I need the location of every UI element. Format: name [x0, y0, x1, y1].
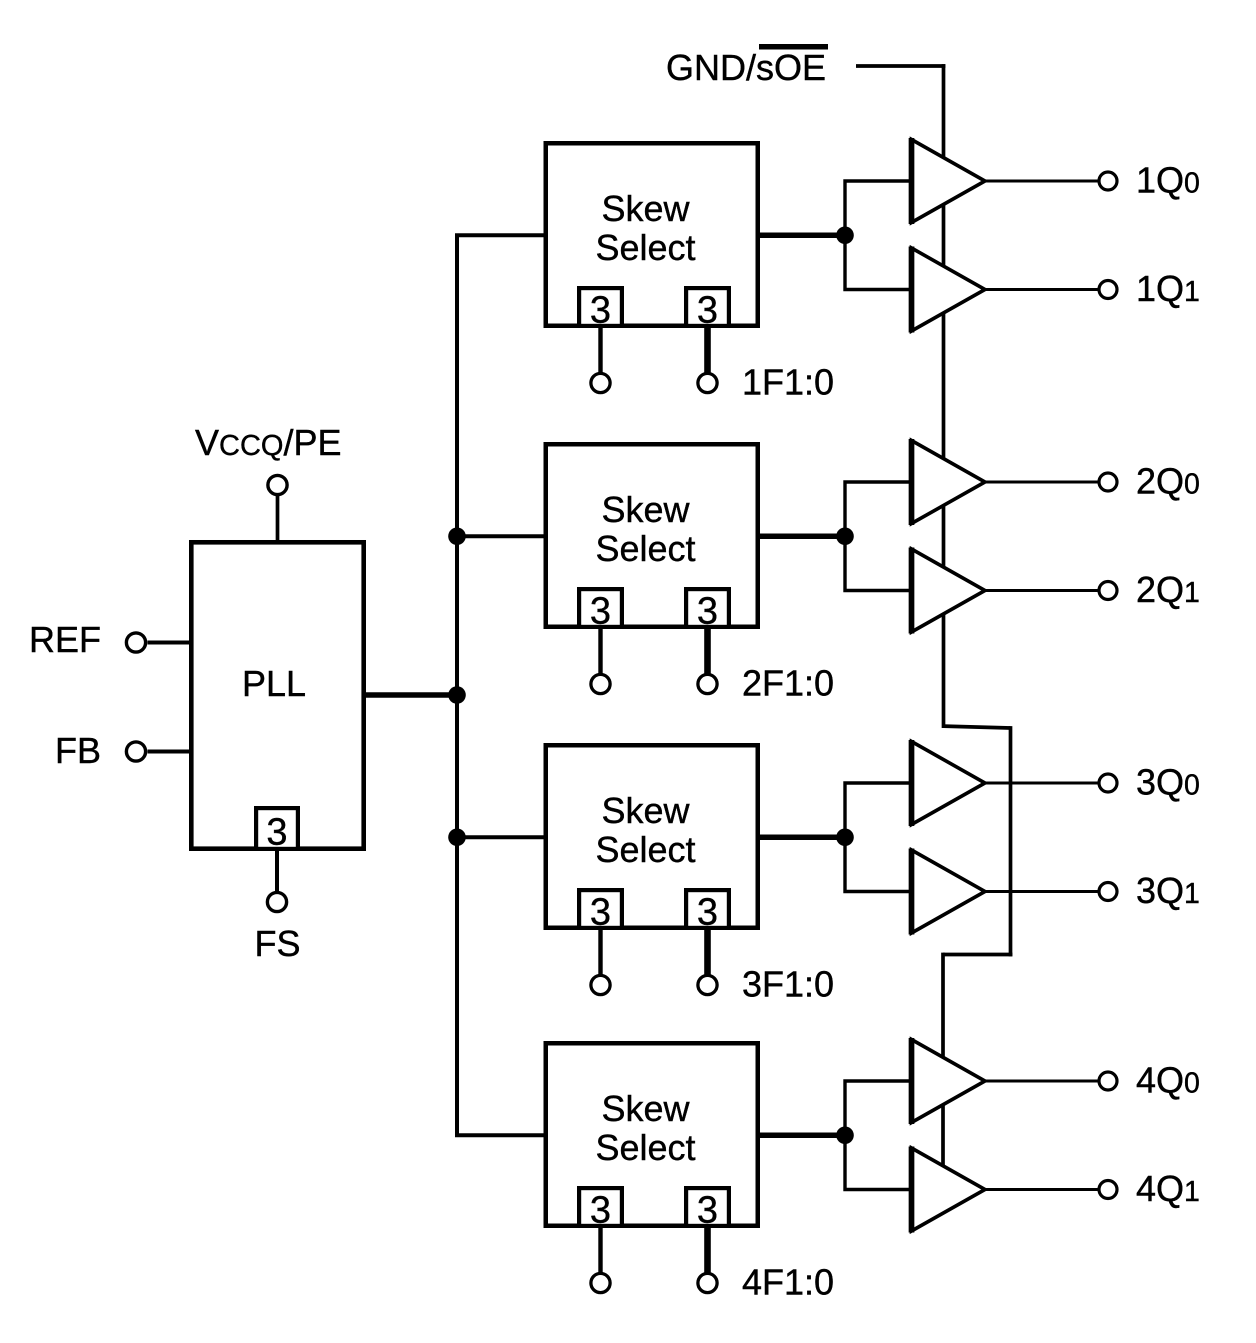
svg-text:Select: Select	[595, 528, 695, 569]
svg-text:FB: FB	[55, 730, 101, 771]
svg-text:3: 3	[697, 591, 718, 633]
svg-text:3F1:0: 3F1:0	[742, 964, 834, 1005]
svg-text:REF: REF	[29, 619, 101, 660]
svg-text:3: 3	[697, 290, 718, 332]
svg-text:Select: Select	[595, 227, 695, 268]
svg-text:Skew: Skew	[601, 790, 690, 831]
svg-text:GND/sOE: GND/sOE	[666, 47, 826, 88]
svg-text:3: 3	[590, 591, 611, 633]
svg-text:3: 3	[590, 1190, 611, 1232]
svg-text:3: 3	[266, 812, 287, 854]
svg-text:4F1:0: 4F1:0	[742, 1262, 834, 1303]
svg-text:2F1:0: 2F1:0	[742, 663, 834, 704]
svg-text:3: 3	[697, 1190, 718, 1232]
svg-text:1F1:0: 1F1:0	[742, 362, 834, 403]
svg-text:FS: FS	[254, 923, 300, 964]
svg-text:3: 3	[590, 892, 611, 934]
svg-text:Skew: Skew	[601, 1088, 690, 1129]
svg-text:Skew: Skew	[601, 489, 690, 530]
svg-text:Select: Select	[595, 1127, 695, 1168]
svg-text:PLL: PLL	[242, 663, 306, 704]
svg-text:Skew: Skew	[601, 188, 690, 229]
svg-text:Select: Select	[595, 829, 695, 870]
svg-text:3: 3	[697, 892, 718, 934]
svg-text:3: 3	[590, 290, 611, 332]
